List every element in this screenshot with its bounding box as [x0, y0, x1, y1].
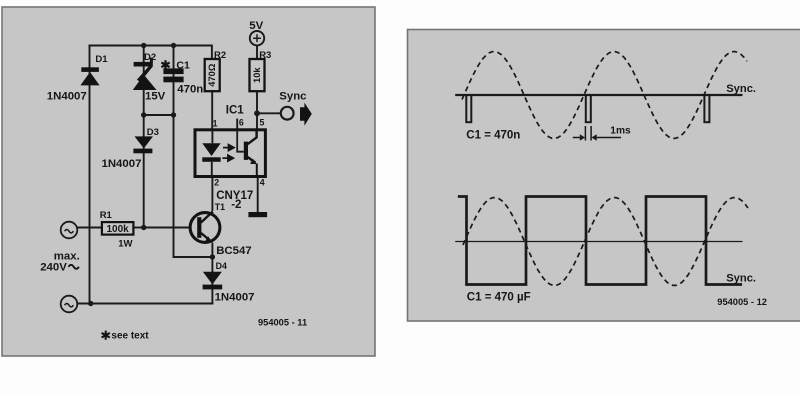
- IC1 internal phototransistor: [237, 130, 257, 177]
- chart2 dashed mains sine: [463, 198, 748, 286]
- svg-text:1ms: 1ms: [610, 126, 631, 137]
- chart1 sync pulse 1: [466, 95, 471, 122]
- junction node: D2 top rail: [88, 43, 260, 306]
- junction node: C1 bottom: [171, 112, 176, 117]
- svg-text:BC547: BC547: [216, 245, 251, 257]
- junction node: base node at R1 output: [141, 225, 146, 230]
- svg-text:D2: D2: [144, 52, 156, 63]
- footnote see text: [102, 331, 110, 340]
- chart2 zero axis line: [455, 241, 742, 243]
- wire: emitter node vertical from C1/D2 node down: [174, 115, 213, 257]
- svg-text:240V: 240V: [40, 262, 67, 274]
- wire: T1 emitter down to junction: [211, 244, 213, 258]
- svg-text:1W: 1W: [118, 238, 132, 249]
- schematic panel background: [2, 7, 375, 356]
- wire: node between D2 anode and C1 bottom: [144, 114, 174, 116]
- resistor R2: [205, 59, 220, 91]
- diode D4: [203, 272, 223, 290]
- wire: D2/D3 branch vertical: [143, 46, 145, 228]
- wire: R2 bottom to IC1 pin 1: [211, 91, 213, 129]
- svg-text:Sync: Sync: [279, 91, 306, 103]
- zener diode D2: [133, 58, 157, 90]
- svg-text:1N4007: 1N4007: [47, 91, 87, 103]
- waveform panel background: [408, 30, 800, 322]
- transistor T1 circle: [190, 212, 220, 243]
- svg-text:1N4007: 1N4007: [102, 158, 142, 170]
- svg-text:T1: T1: [215, 202, 225, 212]
- resistor R1: [102, 222, 133, 235]
- svg-text:10k: 10k: [252, 67, 262, 83]
- svg-text:R3: R3: [259, 50, 271, 61]
- wire: R3 bottom to IC1 pin 5 with sync tap: [256, 91, 258, 129]
- wire: IC1 pin 6 stub: [236, 120, 238, 130]
- svg-text:-2: -2: [231, 199, 241, 211]
- 5V supply terminal: [250, 31, 264, 45]
- svg-text:D4: D4: [216, 261, 227, 271]
- star footnote mark for C1: [161, 60, 169, 69]
- svg-text:954005 - 11: 954005 - 11: [258, 317, 307, 327]
- capacitor C1: [163, 68, 183, 82]
- wire: D4 branch vertical emitter junction to bottom rail: [211, 257, 213, 304]
- svg-text:470Ω: 470Ω: [207, 63, 217, 87]
- svg-text:D1: D1: [95, 54, 108, 65]
- IC1 light arrows: [222, 145, 234, 162]
- junction node: D2 anode: [141, 112, 146, 117]
- sync output arrow symbol: [300, 103, 312, 126]
- svg-text:D3: D3: [147, 127, 159, 138]
- chart1 sync pulse 3: [704, 95, 709, 122]
- svg-text:954005 - 12: 954005 - 12: [717, 297, 767, 307]
- svg-text:5V: 5V: [249, 20, 263, 32]
- ground symbol: [248, 212, 267, 217]
- svg-text:1: 1: [213, 118, 218, 128]
- junction node: emitter / D4 anode: [210, 254, 215, 259]
- AC source terminal 1: [61, 222, 78, 239]
- wire: IC1 pin 4 to ground: [257, 177, 259, 212]
- resistor R3: [250, 59, 265, 91]
- sync output terminal circle: [281, 107, 294, 120]
- svg-text:see text: see text: [111, 331, 149, 342]
- svg-text:6: 6: [239, 117, 244, 127]
- svg-text:C1 = 470 µF: C1 = 470 µF: [467, 292, 531, 304]
- diode D3: [133, 136, 153, 153]
- opto-coupler IC1 body: [195, 130, 265, 177]
- svg-text:R2: R2: [214, 50, 226, 61]
- svg-text:2: 2: [214, 178, 219, 188]
- svg-text:4: 4: [260, 178, 265, 188]
- junction node: C1 top rail: [171, 43, 176, 48]
- wire: AC source 1 to R1: [77, 227, 101, 229]
- svg-text:R1: R1: [100, 210, 113, 221]
- svg-text:Sync.: Sync.: [726, 83, 756, 95]
- svg-text:470n: 470n: [177, 84, 203, 96]
- svg-text:15V: 15V: [145, 91, 166, 103]
- svg-text:C1 = 470n: C1 = 470n: [466, 130, 520, 142]
- wire: C1 branch vertical: [173, 46, 175, 116]
- wire: base wire from R1 junction to T1: [144, 227, 189, 229]
- 1ms dimension marker: [573, 126, 621, 141]
- svg-text:1N4007: 1N4007: [215, 291, 255, 303]
- wire: R1 to base junction: [134, 227, 143, 229]
- wire: bottom rail: [77, 303, 212, 305]
- chart1 sync pulse 2: [586, 95, 591, 122]
- svg-text:IC1: IC1: [226, 105, 245, 117]
- chart2 square wave trace: [458, 197, 742, 285]
- wire: sync tap to output terminal: [257, 112, 280, 114]
- wire: 5V to R3 top: [256, 46, 258, 59]
- wire: top supply rail from D1 branch to R2: [90, 46, 212, 60]
- wire: T1 collector to IC1 pin 2: [211, 177, 213, 210]
- svg-text:C1: C1: [176, 59, 190, 71]
- svg-text:100k: 100k: [106, 224, 129, 235]
- svg-text:5: 5: [260, 117, 265, 127]
- IC1 internal LED: [202, 130, 220, 177]
- diode D1: [80, 67, 99, 85]
- wire: D1 branch vertical: [89, 46, 91, 304]
- chart1 baseline: [455, 94, 742, 96]
- junction node: sync tap at pin 5: [254, 110, 260, 116]
- junction node: bottom rail at D1: [88, 301, 93, 306]
- AC source terminal 2: [61, 296, 78, 313]
- chart1 dashed mains sine: [462, 52, 747, 139]
- svg-text:Sync.: Sync.: [726, 272, 756, 284]
